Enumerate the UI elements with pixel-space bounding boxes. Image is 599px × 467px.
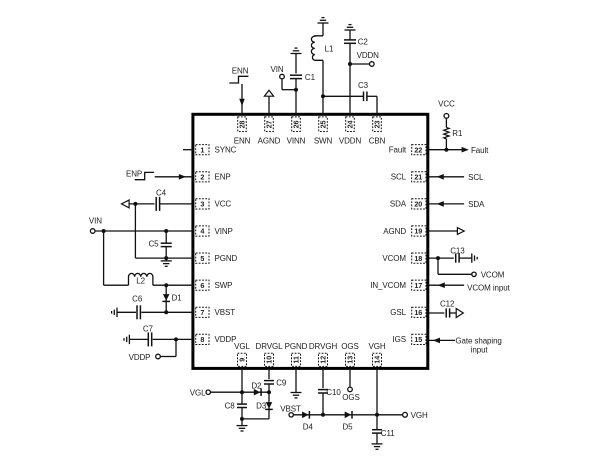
svg-text:15: 15 [414, 335, 422, 344]
wire SDA pin 20 [428, 203, 464, 205]
capacitor C9 [264, 380, 274, 382]
svg-text:7: 7 [200, 308, 204, 317]
junction C5 top [164, 229, 168, 233]
wire C2 to pin 24 VDDN [349, 43, 351, 114]
wire VIN to VINN net [281, 79, 283, 90]
capacitor C12 [445, 308, 447, 317]
svg-text:18: 18 [414, 254, 422, 263]
pin 26 VINN box [292, 117, 301, 132]
pin 8 VDDP box [196, 334, 209, 344]
pin 22 Fault box [412, 145, 426, 155]
wire GSL pin 16 [428, 312, 445, 314]
svg-text:26: 26 [292, 121, 301, 129]
svg-text:VCC: VCC [438, 100, 455, 109]
wire SYNC stub pin 1 [183, 149, 193, 151]
svg-text:5: 5 [200, 254, 204, 263]
svg-text:SWP: SWP [215, 281, 233, 290]
wire ENN to pin 28 [241, 84, 243, 114]
ground above C2 [345, 29, 356, 31]
svg-text:SCL: SCL [391, 173, 407, 182]
svg-text:21: 21 [414, 173, 422, 182]
svg-text:D3: D3 [256, 402, 267, 411]
wire to L2 [104, 284, 129, 286]
inductor L1 [311, 36, 323, 61]
svg-text:VIN: VIN [89, 217, 102, 226]
svg-text:SYNC: SYNC [215, 146, 237, 155]
svg-text:VDDN: VDDN [339, 137, 362, 146]
ground sideways right of C13 [471, 253, 473, 262]
wire VDDN branch to terminal [350, 63, 370, 65]
svg-text:17: 17 [414, 281, 422, 290]
ground sideways left of C7 [128, 335, 130, 344]
inductor L2 [129, 273, 153, 285]
svg-text:VGL: VGL [190, 388, 206, 397]
wire VGL terminal to D2 [210, 391, 269, 393]
svg-text:CBN: CBN [369, 137, 386, 146]
wire C4 to pin 3 VCC [160, 203, 193, 205]
svg-text:VINP: VINP [215, 227, 233, 236]
arrowhead into pin 20 [437, 201, 444, 207]
ENP enable waveform symbol [135, 172, 154, 179]
svg-text:14: 14 [373, 356, 382, 364]
pin 14 VGH box [373, 353, 382, 366]
svg-text:OGS: OGS [342, 393, 359, 402]
junction VCC-row AGND branch [133, 202, 137, 206]
svg-text:C2: C2 [358, 38, 369, 47]
svg-text:C5: C5 [148, 240, 159, 249]
svg-text:C7: C7 [143, 324, 154, 333]
pin 21 SCL box [412, 172, 426, 182]
svg-text:Fault: Fault [389, 146, 407, 155]
svg-text:D1: D1 [172, 293, 183, 302]
svg-text:VGH: VGH [411, 411, 428, 420]
diode D4 [302, 412, 309, 419]
wire IN_VCOM pin 17 [428, 284, 464, 286]
pin 28 ENN box [238, 117, 247, 132]
node VDDP terminal [156, 354, 161, 359]
wire C3 to pin 23 CBN [367, 95, 377, 97]
wire ground to C1 [295, 54, 297, 74]
pin 2 ENP box [196, 172, 209, 182]
arrowhead into pin 28 [239, 99, 245, 106]
svg-text:VGH: VGH [368, 342, 385, 351]
wire C12 to triangle [450, 312, 456, 314]
wire pin 13 OGS down [349, 368, 351, 387]
wire VIN to pin 4 VINP [95, 230, 193, 232]
svg-text:9: 9 [238, 358, 247, 362]
wire ENP to pin 2 [155, 176, 193, 178]
arrowhead into pin 17 [438, 282, 445, 288]
pin 4 VINP box [196, 226, 209, 236]
svg-text:L1: L1 [325, 45, 334, 54]
wire L2 to pin 6 SWP [153, 284, 193, 286]
node VCOM terminal [472, 272, 476, 276]
svg-text:VGL: VGL [234, 342, 250, 351]
capacitor C2 [344, 39, 356, 41]
pin 6 SWP box [196, 280, 209, 290]
svg-text:PGND: PGND [215, 254, 238, 263]
svg-text:C4: C4 [156, 188, 167, 197]
svg-text:Fault: Fault [471, 146, 489, 155]
wire ground to C7 [129, 338, 148, 340]
wire pin 11 PGND down [295, 368, 297, 392]
svg-text:IN_VCOM: IN_VCOM [370, 281, 406, 290]
svg-text:DRVGH: DRVGH [309, 342, 338, 351]
capacitor C1 [290, 74, 302, 76]
wire VIN branch down to L2 [103, 231, 105, 285]
junction VDDN [348, 62, 352, 66]
diode D2 [254, 389, 260, 396]
arrowhead Fault output [462, 147, 469, 153]
junction VIN branch to L2 [102, 229, 106, 233]
svg-text:11: 11 [292, 356, 301, 364]
pin 11 PGND box [292, 353, 301, 366]
pin 18 VCOM box [412, 253, 426, 263]
junction SWN / CBN branch [321, 94, 325, 98]
pin 3 VCC box [196, 199, 209, 209]
wire VDDP branch down to terminal [175, 339, 177, 356]
svg-text:SDA: SDA [390, 200, 407, 209]
svg-text:ENN: ENN [232, 66, 249, 75]
wire VCOM pin 18 [428, 257, 454, 259]
svg-text:AGND: AGND [383, 227, 406, 236]
svg-text:VCC: VCC [215, 200, 232, 209]
svg-text:C3: C3 [358, 81, 369, 90]
wire PGND row to pin 5 [135, 257, 193, 259]
ground below C8 [241, 419, 243, 426]
svg-text:6: 6 [200, 281, 204, 290]
svg-text:D2: D2 [251, 381, 262, 390]
svg-text:13: 13 [346, 356, 355, 364]
pin 25 SWN box [319, 117, 328, 132]
capacitor C6 [136, 305, 138, 319]
svg-text:23: 23 [373, 121, 382, 129]
svg-text:27: 27 [265, 121, 274, 129]
capacitor C11 [376, 415, 378, 430]
svg-text:3: 3 [200, 200, 204, 209]
svg-text:8: 8 [200, 335, 204, 344]
svg-text:2: 2 [200, 173, 204, 182]
svg-text:VDDP: VDDP [215, 335, 237, 344]
junction C8 ground [240, 417, 244, 421]
capacitor C5 [165, 231, 167, 243]
svg-text:28: 28 [238, 121, 247, 129]
svg-text:25: 25 [319, 121, 328, 129]
svg-text:VCOM input: VCOM input [467, 283, 510, 292]
junction R1 / Fault [444, 148, 448, 152]
pin 24 VDDN box [346, 117, 355, 132]
svg-text:AGND: AGND [258, 137, 281, 146]
svg-text:C6: C6 [132, 294, 143, 303]
junction DRVGH / D4 [321, 413, 325, 417]
junction C5 bottom [164, 256, 168, 260]
wire C10 to D4/D5 row [322, 393, 324, 415]
pin 16 GSL box [412, 307, 426, 317]
wire AGND pin 19 [428, 230, 458, 232]
svg-text:DRVGL: DRVGL [256, 342, 284, 351]
capacitor C8 [241, 392, 243, 404]
svg-text:1: 1 [200, 145, 204, 154]
svg-text:L2: L2 [136, 277, 145, 286]
pin 17 IN_VCOM box [412, 280, 426, 290]
pin 5 PGND box [196, 253, 209, 263]
junction VIN/VINN [294, 88, 298, 92]
svg-text:19: 19 [414, 227, 422, 236]
capacitor C3 [363, 92, 365, 102]
ENN enable waveform symbol [229, 76, 248, 83]
pin 13 OGS box [346, 353, 355, 366]
wire C13 to ground [459, 257, 471, 259]
pin 12 DRVGH box [319, 353, 328, 366]
capacitor C10 [318, 389, 328, 391]
svg-text:22: 22 [414, 145, 422, 154]
wire D3/C8 bottom [242, 418, 269, 420]
wire ground to C2 [349, 30, 351, 40]
wire AGND triangle to pin 27 [268, 96, 270, 114]
svg-text:VINN: VINN [287, 137, 306, 146]
AGND open triangle symbol pin 19 [457, 228, 464, 235]
ground above L1 [318, 22, 329, 24]
capacitor C7 [147, 332, 149, 346]
junction VDDP branch [174, 337, 178, 341]
svg-text:C8: C8 [225, 401, 236, 410]
svg-text:12: 12 [319, 356, 328, 364]
svg-text:PGND: PGND [285, 342, 308, 351]
junction D1 cathode / VBST [164, 310, 168, 314]
wire C6 to pin 7 VBST [141, 311, 193, 313]
svg-text:SDA: SDA [468, 200, 485, 209]
AGND open triangle symbol VCC row [122, 200, 130, 208]
diode D1 [165, 285, 167, 312]
svg-text:VBST: VBST [215, 308, 236, 317]
svg-text:SWN: SWN [314, 137, 333, 146]
ground above C1 [291, 53, 302, 55]
wire Fault pin 22 [428, 149, 462, 151]
pin 15 IGS box [412, 334, 426, 344]
svg-text:IGS: IGS [393, 335, 406, 344]
wire pin 9 VGL down [241, 368, 243, 392]
svg-text:C1: C1 [305, 73, 316, 82]
svg-text:C11: C11 [381, 429, 395, 438]
svg-text:4: 4 [200, 227, 204, 236]
diode D5 [345, 412, 352, 419]
wire VBST to VGH [293, 414, 402, 416]
node VGH terminal [403, 412, 408, 417]
wire pin 14 VGH down [376, 368, 378, 414]
junction VGL / pin 9 [240, 390, 244, 394]
svg-text:R1: R1 [452, 129, 463, 138]
pin 20 SDA box [412, 199, 426, 209]
diode D3 [268, 392, 270, 419]
wire ground to L1 [322, 23, 324, 36]
wire SCL pin 21 [428, 176, 464, 178]
pin 1 SYNC box [196, 145, 209, 155]
junction D2 cathode / pin 10 [267, 390, 271, 394]
svg-text:24: 24 [346, 121, 355, 129]
wire C1 to pin 26 VINN [295, 79, 297, 114]
IC U1 body outline 28-pin [193, 114, 428, 368]
node OGS terminal [348, 387, 353, 392]
wire SWN to C3 [323, 95, 363, 97]
svg-text:VCOM: VCOM [382, 254, 406, 263]
wire AGND branch down to PGND row [134, 204, 136, 258]
capacitor C13 [455, 254, 457, 263]
arrowhead into pin 2 [179, 174, 186, 180]
pin 10 DRVGL box [265, 353, 274, 366]
ground below C11 [372, 443, 383, 445]
capacitor C4 [155, 197, 157, 211]
wire pin 10 DRVGL down [268, 368, 270, 379]
svg-text:20: 20 [414, 200, 422, 209]
svg-text:C10: C10 [326, 388, 341, 397]
wire C7 to pin 8 VDDP [153, 338, 193, 340]
svg-text:D4: D4 [303, 422, 314, 431]
wire L1 to pin 25 SWN [322, 60, 324, 114]
wire C9 to VGL row [268, 384, 270, 392]
wire ground to C6 [117, 311, 136, 313]
svg-text:D5: D5 [342, 422, 353, 431]
wire IGS pin 15 [428, 339, 455, 341]
svg-text:10: 10 [265, 356, 274, 364]
svg-text:ENP: ENP [215, 173, 231, 182]
open triangle gate shape symbol pin 16 [456, 308, 463, 317]
svg-text:C9: C9 [276, 378, 287, 387]
pin 23 CBN box [373, 117, 382, 132]
wire C11 to ground [376, 433, 378, 444]
wire triangle to C4 [129, 203, 154, 205]
node VDDN terminal [370, 62, 375, 67]
svg-text:GSL: GSL [390, 308, 406, 317]
svg-text:Gate shaping: Gate shaping [455, 336, 501, 345]
junction VGH column [375, 413, 379, 417]
junction VCOM branch [436, 256, 440, 260]
svg-text:input: input [471, 345, 489, 354]
AGND open triangle symbol pin 27 [264, 90, 273, 96]
svg-text:SCL: SCL [468, 173, 484, 182]
svg-text:C12: C12 [440, 299, 455, 308]
svg-text:16: 16 [414, 308, 422, 317]
svg-text:ENP: ENP [126, 170, 142, 179]
svg-text:C13: C13 [450, 246, 465, 255]
pin 7 VBST box [196, 307, 209, 317]
svg-text:VDDP: VDDP [129, 353, 151, 362]
ground below C5 [165, 258, 167, 261]
pin 27 AGND box [265, 117, 274, 132]
resistor R1 [445, 118, 447, 127]
svg-text:VIN: VIN [271, 65, 284, 74]
wire pin 12 DRVGH down [322, 368, 324, 388]
svg-text:VDDN: VDDN [357, 51, 380, 60]
pin 9 VGL box [238, 353, 247, 366]
arrowhead into pin 21 [437, 174, 444, 180]
svg-text:OGS: OGS [341, 342, 358, 351]
svg-text:ENN: ENN [234, 137, 251, 146]
wire VCOM branch to terminal [437, 258, 439, 274]
arrowhead into pin 15 [433, 338, 440, 344]
ground below pin 11 [291, 392, 302, 394]
svg-text:VCOM: VCOM [481, 271, 505, 280]
pin 19 AGND box [412, 226, 426, 236]
ground sideways left of C6 [116, 308, 118, 317]
junction SWP / D1 [164, 283, 168, 287]
